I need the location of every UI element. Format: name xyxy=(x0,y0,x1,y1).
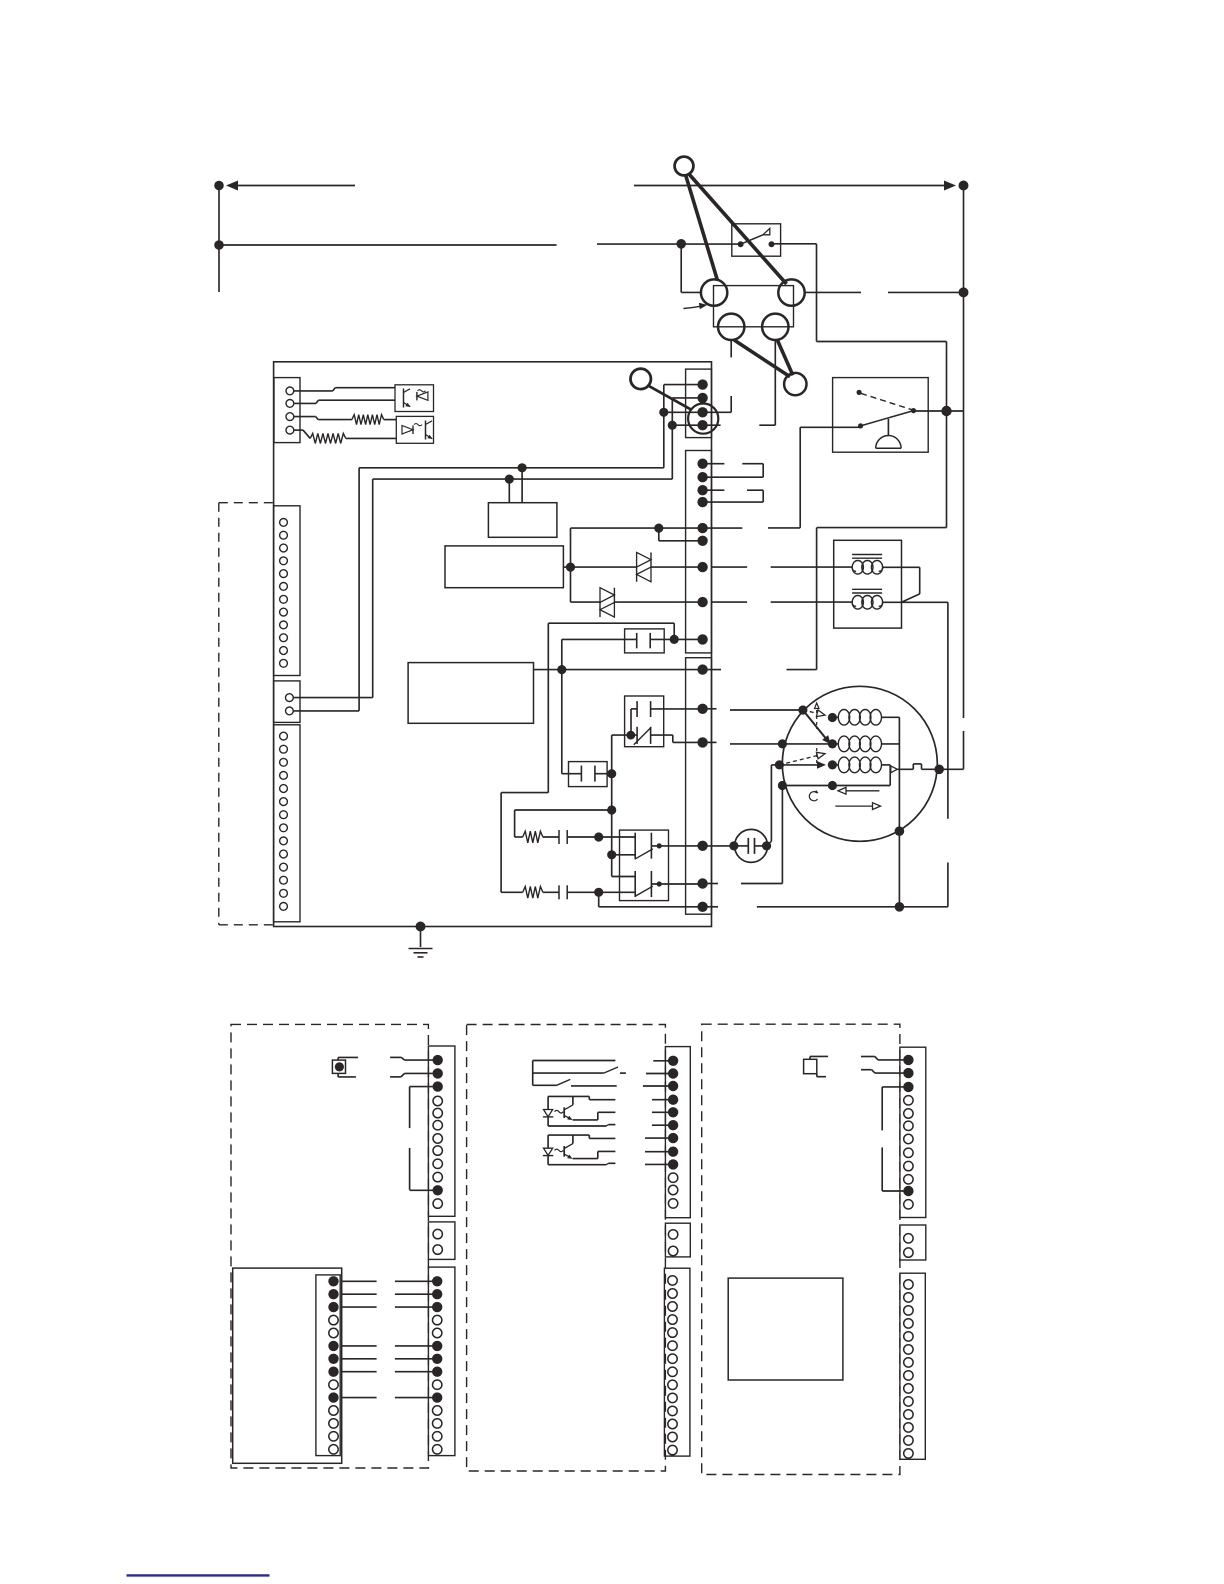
acc3 wire t2 xyxy=(861,1069,872,1071)
defrost header pin 14 xyxy=(329,1445,338,1454)
wire R2 to C4 xyxy=(543,891,559,893)
triac Q2 xyxy=(600,588,614,603)
acc2 terminal 12 xyxy=(668,1199,677,1208)
terminal strip S3 xyxy=(686,658,712,915)
optocoupler U1 box xyxy=(395,385,434,412)
K2 bottom plates xyxy=(634,871,636,897)
wire tap A down xyxy=(521,468,523,503)
wire transformer to motor common xyxy=(947,602,949,819)
node cap right xyxy=(762,841,771,850)
K1 bottom plates xyxy=(636,727,638,744)
acc2 strip S3 xyxy=(664,1268,690,1456)
wire gate to K2 xyxy=(612,854,636,856)
transformer winding1 hooks xyxy=(852,567,856,571)
node relay bus junction xyxy=(941,406,951,416)
K1 slash xyxy=(634,727,652,745)
defrost header pin 12 xyxy=(329,1419,338,1428)
disconnect contact right xyxy=(769,241,775,247)
wire C1 right lead xyxy=(650,638,674,640)
K2 top plates xyxy=(634,833,636,859)
wire box C lead xyxy=(534,669,562,671)
acc1 S3 terminal 3 xyxy=(432,1302,442,1312)
acc1 strip S1 xyxy=(428,1046,455,1216)
connector J2 pin 1 xyxy=(280,519,288,527)
node motor shell xyxy=(895,826,905,836)
acc2 terminal 1 xyxy=(668,1056,678,1066)
relay transformer box A xyxy=(488,503,557,538)
connector J4 pin 14 xyxy=(280,903,288,911)
acc3 S3 pin 9 xyxy=(904,1384,913,1393)
motor aux winding xyxy=(838,757,849,773)
acc1 S3 terminal 12 xyxy=(433,1419,442,1428)
defrost board header xyxy=(316,1275,340,1456)
wire R2 into K2 xyxy=(599,891,636,893)
acc2 S3 pin 7 xyxy=(668,1354,677,1363)
acc3 S3 pin 14 xyxy=(904,1449,913,1458)
node gate bus K2 xyxy=(607,850,616,859)
wire R3 out xyxy=(384,419,397,421)
connector J2 pin 12 xyxy=(280,659,288,667)
optocoupler U2 internals xyxy=(402,426,413,435)
acc1 S3 terminal 10 xyxy=(432,1392,442,1402)
relay coil dome xyxy=(876,436,901,449)
acc1 S3 terminal 5 xyxy=(433,1328,442,1337)
motor winding A leads xyxy=(832,716,838,718)
receptacle circle L xyxy=(701,279,727,305)
node winding C terminal xyxy=(828,760,837,769)
optocoupler U1 internals xyxy=(403,389,405,408)
wire motor row4 xyxy=(782,785,890,787)
acc3 terminal 5 xyxy=(904,1109,913,1118)
wire vertical service drop left xyxy=(218,186,220,293)
wire U3 emitter xyxy=(652,1111,673,1113)
K1 bottom lead xyxy=(631,734,637,736)
node winding B terminal xyxy=(828,739,837,748)
micro box C xyxy=(408,663,533,724)
logic box B xyxy=(445,546,563,588)
acc1 terminal 6 xyxy=(433,1121,442,1130)
wire gate to K2 lower xyxy=(612,876,636,878)
acc3 S2 pin 2 xyxy=(904,1248,913,1257)
wire R1 feed xyxy=(515,809,612,811)
terminal dot S2 y567.1 xyxy=(697,562,707,572)
terminal dot S3 y845.8 xyxy=(697,841,707,851)
wire box B net vertical xyxy=(570,528,572,602)
wire motor row2 xyxy=(730,743,832,745)
accessory box 2 dashed xyxy=(467,1025,666,1472)
wire U3 collector xyxy=(652,1099,673,1101)
acc1 S2 pin 1 xyxy=(433,1229,442,1238)
motor run winding xyxy=(838,710,849,726)
acc3 S3 pin 8 xyxy=(904,1371,913,1380)
acc1 terminal 8 xyxy=(433,1146,442,1155)
capacitor box C1 xyxy=(625,629,665,653)
relay coil stem xyxy=(887,419,889,436)
wire U4 emitter xyxy=(645,1151,673,1153)
acc1 strip S2 xyxy=(428,1222,455,1260)
wire J1-3 xyxy=(294,416,316,418)
terminal dot S2 y477.2 xyxy=(697,472,707,482)
connector J3 box xyxy=(274,681,300,723)
acc3 terminal 11 xyxy=(903,1186,913,1196)
optocoupler U4 xyxy=(548,1134,589,1136)
connector J1 pin 4 xyxy=(286,426,294,434)
wire S1-1 left xyxy=(664,384,703,386)
wire defrost to strip row 2 xyxy=(342,1293,377,1295)
acc3 terminal 7 xyxy=(904,1134,913,1143)
connector J4 pin 12 xyxy=(280,876,288,884)
acc3 terminal 1 xyxy=(903,1055,913,1065)
terminal dot S3 y669.6 xyxy=(697,664,707,674)
wire row4 down to terminal xyxy=(781,786,783,884)
acc2 S3 pin 11 xyxy=(668,1406,677,1415)
defrost header pin 9 xyxy=(329,1380,338,1389)
acc3 terminal 8 xyxy=(904,1148,913,1157)
selector dashed arrow up xyxy=(779,755,819,765)
wire L1 feed right with arrowhead to right bus xyxy=(634,185,950,187)
terminal dot S2 y502.1 xyxy=(697,497,707,507)
acc3 terminal 12 xyxy=(904,1200,913,1209)
resistor R1 xyxy=(523,831,543,843)
motor winding B leads xyxy=(832,743,838,745)
acc3 S3 pin 12 xyxy=(904,1423,913,1432)
connector J3 pin 2 xyxy=(286,707,294,715)
wire R1 into K2 xyxy=(599,836,636,838)
wire row 528 left xyxy=(571,527,703,529)
wire defrost to strip row 7 xyxy=(342,1358,377,1360)
acc2 switch frame xyxy=(532,1061,534,1086)
node row4 mid xyxy=(828,781,837,790)
wire R4 out xyxy=(346,437,397,439)
jumper loop terminals 1-2 xyxy=(703,463,725,465)
wire triac2 row xyxy=(571,601,601,603)
defrost header pin 8 xyxy=(328,1367,338,1377)
footer rule blue xyxy=(127,1574,270,1576)
connector J2 pin 8 xyxy=(280,608,288,616)
acc2 S3 pin 3 xyxy=(668,1302,677,1311)
defrost header pin 6 xyxy=(328,1341,338,1351)
motor common vertical xyxy=(898,717,900,907)
plug blade right thick xyxy=(689,174,787,285)
acc1 S2 pin 2 xyxy=(433,1245,442,1254)
node junction net B xyxy=(668,421,677,430)
connector J4 pin 10 xyxy=(280,850,288,858)
acc2 switch1 xyxy=(533,1072,604,1074)
interface board box xyxy=(728,1278,843,1380)
plug J1 blade thick xyxy=(648,386,691,410)
acc1 wire t2 xyxy=(390,1076,401,1078)
acc1 S3 terminal 6 xyxy=(432,1341,442,1351)
wire triac1 row xyxy=(571,566,637,568)
wire L2 receptacle notch xyxy=(730,396,732,412)
acc2 terminal 8 xyxy=(668,1147,678,1157)
acc3 jumper t3-t11 xyxy=(882,1086,908,1088)
node bottom rail xyxy=(895,902,905,912)
wire L2 horizontal left segment xyxy=(219,244,557,246)
plug circle top xyxy=(675,157,694,176)
terminal dot S3 y906.8 xyxy=(697,902,707,912)
node winding A terminal xyxy=(828,713,837,722)
acc1 S3 terminal 14 xyxy=(433,1445,442,1454)
wire relay coil to terminal xyxy=(800,426,860,428)
acc1 S3 terminal 11 xyxy=(433,1406,442,1415)
control board outline xyxy=(274,362,712,927)
acc2 S3 pin 1 xyxy=(668,1276,677,1285)
acc2 S2 pin 2 xyxy=(668,1246,677,1255)
acc3 jack square xyxy=(804,1059,817,1073)
acc1 S3 terminal 7 xyxy=(432,1354,442,1364)
acc1 sensor square xyxy=(332,1060,345,1073)
accessory box 3 dashed xyxy=(702,1024,900,1474)
node motor tap 3 xyxy=(775,760,784,769)
acc1 terminal 4 xyxy=(433,1096,442,1105)
wire relay feed down xyxy=(946,411,948,528)
defrost header pin 2 xyxy=(328,1289,338,1299)
acc3 terminal 9 xyxy=(904,1161,913,1170)
terminal dot S1 y425.2 xyxy=(697,420,707,430)
wire R net bottom rail xyxy=(598,892,600,907)
acc3 terminal 6 xyxy=(904,1121,913,1130)
defrost header pin 11 xyxy=(329,1406,338,1415)
wire defrost to strip row 1 xyxy=(342,1280,377,1282)
motor start winding xyxy=(838,736,849,752)
triac Q1 xyxy=(637,552,651,567)
acc2 terminal 3 xyxy=(668,1081,678,1091)
delta marker xyxy=(815,703,820,709)
defrost header pin 4 xyxy=(329,1315,338,1324)
receptacle circle L2 xyxy=(718,314,744,340)
wire C1 left lead xyxy=(562,638,637,640)
connector J2 pin 5 xyxy=(280,570,288,578)
resistor R3 xyxy=(352,415,384,425)
wire net vertical x672 xyxy=(671,398,673,479)
disconnect arrow marker xyxy=(763,228,770,234)
connector J1 pin 2 xyxy=(286,400,294,408)
terminal strip S2 xyxy=(686,451,712,653)
accessory box 1 dashed xyxy=(231,1024,428,1468)
acc1 terminal 7 xyxy=(433,1134,442,1143)
wire S1-3 left xyxy=(664,411,703,413)
node junction on L2 line xyxy=(214,240,224,250)
acc1 terminal 3 xyxy=(433,1081,443,1091)
acc3 S3 pin 5 xyxy=(904,1332,913,1341)
wire net B down to plug xyxy=(372,479,374,697)
K2 bottom lead xyxy=(651,883,702,885)
wire jog 528 to 540 xyxy=(658,528,660,541)
wire relay common to bus xyxy=(914,410,964,412)
transformer core top xyxy=(852,554,882,556)
acc2 S3 pin 4 xyxy=(668,1315,677,1324)
defrost header pin 5 xyxy=(329,1328,338,1337)
wire net A down to plug xyxy=(358,468,360,711)
acc2 S3 pin 8 xyxy=(668,1367,677,1376)
wire defrost to strip row 10 xyxy=(342,1397,377,1399)
acc3 S3 pin 1 xyxy=(904,1280,913,1289)
node cap left xyxy=(729,841,738,850)
terminal dot S2 y602.1 xyxy=(697,597,707,607)
wire defrost to strip row 6 xyxy=(342,1345,377,1347)
acc3 S3 pin 7 xyxy=(904,1358,913,1367)
disconnect switch box xyxy=(732,224,781,256)
receptacle circle R2 xyxy=(762,314,788,340)
transformer winding2 hooks xyxy=(852,602,856,606)
node C1 output xyxy=(670,635,679,644)
wire row 528 right stub xyxy=(703,527,743,529)
acc2 terminal 6 xyxy=(668,1120,678,1130)
plug circle bottom xyxy=(784,373,806,395)
defrost header pin 1 xyxy=(328,1276,338,1286)
node tap to 24V box A xyxy=(518,463,527,472)
acc2 terminal 5 xyxy=(668,1107,678,1117)
wire C4 out xyxy=(567,891,599,893)
node junction left of disconnect xyxy=(676,239,686,249)
acc2 switch2 xyxy=(533,1084,557,1086)
node bus top junction xyxy=(959,287,969,297)
wire net B horizontal xyxy=(373,478,673,480)
run capacitor plates xyxy=(747,838,749,854)
resistor R2 xyxy=(523,887,543,899)
acc1 terminal 2 xyxy=(433,1068,443,1078)
wire U3 cathode xyxy=(652,1124,673,1126)
defrost board box xyxy=(233,1268,342,1463)
defrost header pin 3 xyxy=(328,1302,338,1312)
connector J4 pin 5 xyxy=(280,785,288,793)
acc1 terminal 1 xyxy=(433,1055,443,1065)
acc3 S3 pin 11 xyxy=(904,1410,913,1419)
acc1 sensor dot xyxy=(335,1062,344,1071)
wire J1-2 xyxy=(294,402,316,404)
wire R2 row segments xyxy=(672,424,720,426)
capacitor C1 plates xyxy=(636,633,638,648)
selector pivot dashes xyxy=(816,710,818,729)
connector J2 pin 4 xyxy=(280,557,288,565)
transformer core bottom xyxy=(852,588,882,590)
terminal dot S2 y490.2 xyxy=(697,485,707,495)
acc2 terminal 7 xyxy=(668,1133,678,1143)
plug blade R2-B thick xyxy=(778,341,793,376)
wire C1C2 common vertical xyxy=(561,639,563,773)
acc1 terminal 11 xyxy=(433,1185,443,1195)
motor bottom rail xyxy=(757,906,948,908)
node box B output xyxy=(566,563,575,572)
terminal dot S2 y540.8 xyxy=(697,536,707,546)
wire receptacle R to bus segments xyxy=(805,291,861,293)
jumper loop terminals 3-4 xyxy=(703,489,725,491)
terminal dot S2 y639.4 xyxy=(697,634,707,644)
relay armature xyxy=(861,411,914,426)
relay common dot xyxy=(911,408,916,413)
run capacitor leads xyxy=(734,845,748,847)
acc1 S3 terminal 8 xyxy=(432,1367,442,1377)
field wiring dashed box left xyxy=(218,503,220,925)
plug blade left thick xyxy=(686,175,718,281)
wire net vertical x663 xyxy=(663,385,665,468)
node gate bus C2 xyxy=(607,769,616,778)
K2 top lead xyxy=(651,845,702,847)
connector J2 pin 9 xyxy=(280,621,288,629)
wire K1 input xyxy=(612,734,631,736)
acc2 terminal 10 xyxy=(668,1173,677,1182)
terminal dot S1 y412.3 xyxy=(697,407,707,417)
acc1 jumper t3-t11 xyxy=(410,1086,438,1088)
wire L2 receptacle drop xyxy=(730,340,732,357)
relay dashed contact xyxy=(861,393,912,409)
connector J4 strip xyxy=(274,725,300,922)
wire tap3 to capacitor xyxy=(771,764,779,766)
acc1 wire t1 xyxy=(390,1056,401,1058)
node junction net A xyxy=(659,408,668,417)
rotation curl xyxy=(809,792,817,801)
resistor R4 xyxy=(310,433,346,443)
connector J2 pin 7 xyxy=(280,595,288,603)
wire C2 leads xyxy=(562,773,582,775)
terminal strip S1 xyxy=(686,369,712,438)
connector J4 pin 13 xyxy=(280,889,288,897)
acc1 S3 terminal 1 xyxy=(432,1276,442,1286)
defrost header pin 13 xyxy=(329,1432,338,1441)
acc2 S2 pin 1 xyxy=(668,1230,677,1239)
selector pivot dashes 2 xyxy=(816,748,818,766)
connector J2 pin 10 xyxy=(280,634,288,642)
acc3 terminal 10 xyxy=(904,1175,913,1184)
wire tap B down xyxy=(508,479,510,503)
acc2 strip S1 xyxy=(665,1047,690,1218)
acc1 terminal 5 xyxy=(433,1108,442,1117)
connector J2 pin 3 xyxy=(280,544,288,552)
connector J4 pin 3 xyxy=(280,758,288,766)
acc1 S3 terminal 4 xyxy=(433,1315,442,1324)
defrost header pin 10 xyxy=(328,1392,338,1402)
acc2 S3 pin 13 xyxy=(668,1432,677,1441)
wire board ground spur xyxy=(416,922,426,932)
connector J4 pin 7 xyxy=(280,811,288,819)
K1 top plates xyxy=(636,701,638,717)
acc3 wire t1 xyxy=(861,1056,875,1058)
wire U4 cathode xyxy=(645,1163,673,1165)
connector J2 pin 2 xyxy=(280,531,288,539)
switch box K2 xyxy=(620,830,669,901)
acc2 terminal 4 xyxy=(668,1095,678,1105)
terminal dot S2 y528.1 xyxy=(697,523,707,533)
wire junction drop to plug L xyxy=(680,244,682,293)
acc1 S3 terminal 13 xyxy=(433,1432,442,1441)
motor winding C leads xyxy=(832,764,838,766)
wire defrost to strip row 8 xyxy=(342,1371,377,1373)
connector J1 pin 3 xyxy=(286,413,294,421)
acc3 S2 pin 1 xyxy=(904,1234,913,1243)
rotation arrow ccw xyxy=(843,790,879,792)
capacitor C4 plates xyxy=(558,885,560,899)
relay box xyxy=(833,378,929,453)
wire L1 feed left with arrowhead xyxy=(228,185,355,187)
wire box B lead xyxy=(563,566,570,568)
acc1 S3 terminal 2 xyxy=(432,1289,442,1299)
rotation arrow cw xyxy=(835,805,875,807)
wire gate bus vertical xyxy=(611,735,613,876)
thermal protector contact xyxy=(891,766,898,773)
node motor edge 4 xyxy=(778,781,787,790)
switch box K1 xyxy=(625,696,664,747)
connector J2 pin 6 xyxy=(280,583,288,591)
acc2 terminal 11 xyxy=(668,1185,677,1194)
capacitor C3 plates xyxy=(558,830,560,844)
wire R2 feed xyxy=(501,891,523,893)
wire R2 receptacle drop xyxy=(774,340,776,425)
wire motor row1 xyxy=(730,709,803,711)
run capacitor circle xyxy=(735,829,768,862)
acc1 S3 terminal 9 xyxy=(433,1380,442,1389)
acc2 S3 pin 10 xyxy=(668,1393,677,1402)
